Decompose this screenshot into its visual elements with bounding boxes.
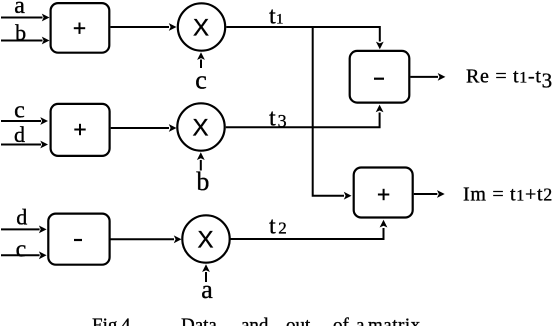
wire input c — [1, 117, 48, 125]
svg-text:matrix: matrix — [368, 315, 421, 326]
label Im = t1+t2 — [463, 184, 552, 206]
wire t2 from M3 to plus box bottom with corner up — [230, 220, 387, 239]
input label a — [14, 0, 25, 19]
arrow input c into M1 — [197, 52, 205, 68]
svg-text:Fig.: Fig. — [92, 315, 122, 326]
svg-text:a: a — [201, 275, 213, 304]
wire t3 from M2 to minus box bottom with corner up — [226, 105, 384, 128]
wire S2 output to Re — [410, 73, 445, 81]
svg-text:out: out — [286, 315, 311, 326]
node t1 label — [269, 4, 284, 30]
label c under M1 — [195, 65, 207, 94]
svg-text:Data: Data — [181, 315, 217, 326]
input label d — [14, 122, 25, 147]
arrow input a into M3 — [202, 264, 210, 282]
multiplier M3 (circle X) — [182, 215, 229, 262]
svg-text:d: d — [14, 122, 25, 147]
svg-text:of: of — [333, 315, 350, 326]
input label b — [15, 20, 26, 45]
svg-text:2: 2 — [278, 219, 287, 238]
adder box A2 (+) — [51, 104, 110, 156]
adder box A1 (+) — [51, 3, 110, 53]
svg-text:a: a — [14, 0, 25, 19]
svg-text:t: t — [269, 214, 276, 240]
arrow input b into M2 — [197, 152, 205, 170]
svg-text:t: t — [269, 4, 276, 30]
subtractor box S2 (-) for Re — [350, 51, 410, 103]
input label d — [16, 205, 27, 230]
svg-text:b: b — [196, 167, 209, 196]
multiplier M1 (circle X) — [178, 3, 225, 50]
svg-text:4.: 4. — [121, 315, 135, 326]
wire input b — [1, 37, 50, 45]
svg-text:c: c — [16, 236, 27, 262]
wire input c — [1, 251, 47, 259]
svg-text:a: a — [356, 315, 365, 326]
svg-text:3: 3 — [278, 111, 287, 131]
svg-text:d: d — [16, 205, 27, 230]
wire A3 output to Im — [414, 190, 445, 198]
wire S1 to M3 — [110, 235, 182, 243]
svg-text:c: c — [195, 65, 207, 94]
label Re = t1-t3 — [466, 66, 552, 93]
adder box A3 (+) for Im — [354, 168, 413, 218]
wire A1 to M1 — [111, 23, 177, 31]
wire input d — [1, 226, 47, 234]
subtractor box S1 (-) — [48, 214, 109, 265]
label a under M3 — [201, 275, 213, 304]
svg-text:X: X — [197, 226, 213, 253]
svg-text:X: X — [192, 114, 208, 141]
wire input a — [1, 14, 50, 22]
svg-text:X: X — [193, 14, 209, 41]
wire t1 from M1 to minus box with corner down — [226, 27, 383, 49]
input label c — [16, 236, 27, 262]
wire A2 to M2 — [111, 124, 177, 132]
wire t1 branch down to plus box — [313, 27, 352, 200]
svg-text:1: 1 — [276, 12, 284, 28]
wire input d — [1, 141, 48, 149]
caption Fig. 4. (partially cut) — [92, 315, 421, 326]
svg-text:Im = t1+t2: Im = t1+t2 — [463, 184, 552, 206]
input label c — [14, 97, 25, 123]
node t3 label — [269, 106, 287, 132]
svg-text:and: and — [241, 315, 269, 326]
svg-text:t: t — [269, 106, 276, 132]
label b under M2 — [196, 167, 209, 196]
svg-text:c: c — [14, 97, 25, 123]
node t2 label — [269, 214, 287, 240]
multiplier M2 (circle X) — [177, 103, 224, 150]
